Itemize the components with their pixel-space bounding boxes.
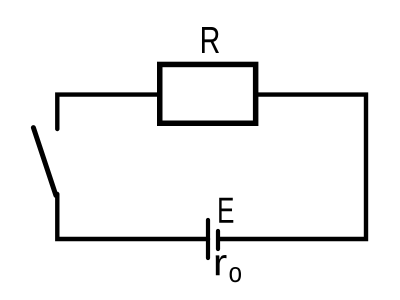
resistor R (rectangle body): [160, 64, 256, 123]
battery long plate (positive): [206, 220, 210, 258]
switch blade (open): [33, 128, 56, 196]
label R: [202, 27, 219, 53]
wire top-left segment with switch stub: [57, 95, 160, 129]
label r (internal resistance): [216, 255, 227, 275]
label o (subscript of r): [230, 267, 241, 282]
label E (emf): [219, 198, 233, 223]
wire bottom-left segment and left vertical: [57, 194, 208, 239]
wire top-right, right side and bottom-right segment: [220, 95, 366, 239]
battery short plate (negative): [216, 231, 220, 249]
